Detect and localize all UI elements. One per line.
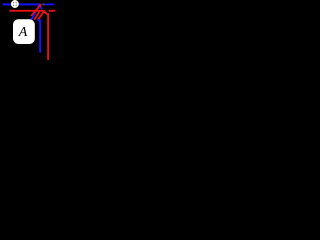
wire red vertical xyxy=(47,13,49,60)
arrow red current arrow shaft xyxy=(31,6,40,16)
wire red stub right xyxy=(49,10,56,12)
wire red horizontal rail xyxy=(10,10,45,12)
ammeter A1 body xyxy=(13,19,35,44)
wire blue horizontal rail xyxy=(3,3,41,5)
wire blue vertical xyxy=(39,19,41,52)
wire blue corner stub xyxy=(40,5,42,9)
svg-text:A: A xyxy=(18,25,28,40)
wire red jog diagonal xyxy=(44,11,48,15)
terminal plus node xyxy=(12,1,18,7)
wire red diagonal to node xyxy=(38,11,44,20)
background xyxy=(0,0,61,60)
wire blue horizontal rail dim segment xyxy=(42,4,45,6)
wire red diagonal into ammeter xyxy=(34,11,40,20)
arrow red current arrow head xyxy=(38,4,42,8)
wire blue diagonal into ammeter xyxy=(31,5,39,20)
wire blue horizontal rail right segment xyxy=(45,4,54,6)
wire blue flag at vertical top xyxy=(37,20,40,22)
